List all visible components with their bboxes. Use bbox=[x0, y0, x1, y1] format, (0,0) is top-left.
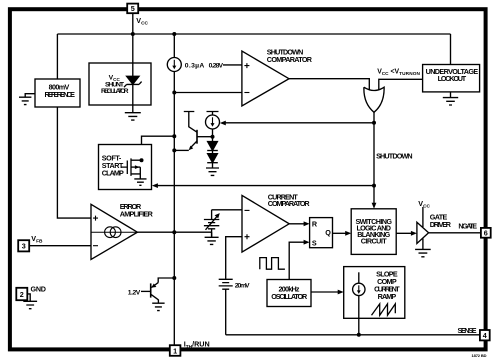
200kHz oscillator box bbox=[267, 280, 311, 307]
minus sign error amp bbox=[93, 245, 98, 247]
svg-text:DRIVER: DRIVER bbox=[430, 220, 452, 229]
ground left of 800mV reference bbox=[19, 94, 35, 105]
undervoltage lockout box bbox=[423, 65, 480, 92]
svg-text:CIRCUIT: CIRCUIT bbox=[361, 237, 388, 246]
label VCC SHUNT REGULATOR bbox=[101, 75, 129, 95]
zener diode in shunt regulator bbox=[132, 63, 134, 76]
wire current comparator output to R bbox=[289, 223, 306, 225]
svg-text:1: 1 bbox=[173, 346, 177, 355]
wire Q1 emitter to ITH line bbox=[174, 149, 189, 151]
wire reference to error amp + bbox=[57, 107, 91, 218]
sawtooth glyph bbox=[372, 304, 396, 315]
800mV reference box bbox=[35, 79, 80, 107]
wire gate driver ground stub bbox=[422, 239, 424, 250]
wire shutdown to clamp current source bbox=[223, 122, 375, 124]
wire ITH vertical main bbox=[173, 72, 175, 346]
ground under shunt regulator bbox=[125, 105, 141, 120]
junction dot rail-pin5 bbox=[131, 32, 135, 36]
OR gate bbox=[364, 87, 384, 112]
svg-text:REFERENCE: REFERENCE bbox=[45, 90, 76, 99]
junction dot slope comp on SENSE line bbox=[357, 333, 361, 337]
slope comp current source circle bbox=[353, 283, 365, 295]
wire slope comp output to SENSE line bbox=[358, 296, 360, 335]
transistor Q1 T-bar and collector bbox=[184, 112, 197, 133]
wire to shutdown comparator minus bbox=[174, 92, 242, 94]
svg-text:5: 5 bbox=[131, 4, 135, 13]
square wave glyph bbox=[260, 258, 285, 270]
diode D1 bbox=[208, 142, 218, 151]
wire shutdown to soft-start box bbox=[155, 185, 374, 187]
current source soft-start stubs and T-bar bbox=[207, 112, 219, 142]
error amplifier triangle bbox=[91, 204, 137, 259]
soft-start MOSFET body lead with arrow bbox=[131, 166, 140, 168]
junction dot shutdown line upper bbox=[372, 121, 376, 125]
transistor Q1 emitter with arrow bbox=[190, 141, 197, 148]
svg-text:0.28V: 0.28V bbox=[209, 63, 224, 70]
arrowhead into switching logic left bbox=[345, 231, 351, 236]
svg-text:0.3µA: 0.3µA bbox=[185, 63, 205, 70]
slope comp current ramp box bbox=[344, 267, 405, 319]
1.2V PNP base bar bbox=[150, 283, 152, 297]
svg-text:OSCILLATOR: OSCILLATOR bbox=[271, 292, 308, 301]
pin 2 box bbox=[16, 288, 27, 300]
svg-text:R: R bbox=[312, 219, 318, 228]
junction dot error amp output bbox=[172, 230, 176, 234]
ground in soft-start box bbox=[134, 179, 146, 185]
wire OR output SHUTDOWN vertical bbox=[373, 112, 375, 205]
wire pin5 stub bbox=[132, 13, 134, 63]
variable offset source arrow bbox=[206, 216, 218, 230]
ground under 1.2V PNP bbox=[152, 303, 164, 310]
arrowhead into clamp current source bbox=[220, 121, 226, 126]
gate driver triangle bbox=[417, 222, 429, 243]
arrowhead into slope comp box bbox=[338, 290, 344, 295]
junction dot MOSFET drain bbox=[140, 158, 144, 162]
diode D2 bbox=[208, 154, 218, 163]
arrowhead into switching logic top bbox=[372, 203, 377, 209]
svg-text:SENSE: SENSE bbox=[458, 326, 477, 335]
ground under offset source bbox=[205, 232, 219, 244]
pin 5 box bbox=[127, 4, 138, 14]
svg-text:AMPLIFIER: AMPLIFIER bbox=[120, 209, 154, 218]
switching logic and blanking circuit box bbox=[351, 209, 396, 255]
ground GND pin bbox=[23, 294, 37, 309]
wire oscillator to S input bbox=[289, 242, 306, 279]
minus sign shutdown comparator bbox=[244, 92, 249, 94]
minus sign current comparator bbox=[245, 209, 250, 211]
svg-text:GND: GND bbox=[31, 285, 47, 294]
svg-text:1.2V: 1.2V bbox=[128, 289, 141, 296]
svg-text:CLAMP: CLAMP bbox=[102, 168, 124, 177]
pin 3 box bbox=[18, 240, 29, 251]
svg-text:COMPARATOR: COMPARATOR bbox=[267, 55, 313, 64]
junction dot Q1 base diode node bbox=[211, 135, 215, 139]
svg-text:4: 4 bbox=[483, 331, 487, 340]
arrowhead into soft-start box bbox=[152, 183, 158, 188]
VCC shunt regulator box bbox=[89, 63, 151, 105]
wire soft-start drain to ITH node bbox=[142, 136, 175, 160]
wire VFB pin to error amp minus bbox=[29, 245, 91, 247]
svg-text:3: 3 bbox=[22, 242, 26, 251]
svg-text:RAMP: RAMP bbox=[378, 292, 397, 301]
soft-start MOSFET source lead bbox=[131, 167, 140, 179]
wire offset source vertical bbox=[211, 210, 213, 237]
junction dot Q1 emitter node bbox=[172, 148, 176, 152]
svg-text:COMPARATOR: COMPARATOR bbox=[268, 199, 311, 208]
arrowhead into gate driver bbox=[411, 231, 417, 236]
svg-text:6: 6 bbox=[484, 229, 488, 238]
transistor Q1 base bar bbox=[196, 130, 198, 144]
wire Q1 base to diode node bbox=[197, 136, 213, 138]
1.2V PNP emitter with arrow into bar bbox=[152, 283, 159, 288]
svg-text:REGULATOR: REGULATOR bbox=[101, 88, 129, 95]
junction dot shutdown line lower bbox=[372, 184, 376, 188]
soft-start MOSFET gate lead and bars bbox=[122, 158, 132, 176]
wire latch Q to switching logic bbox=[333, 232, 349, 234]
pin 1 box bbox=[170, 345, 181, 356]
wire oscillator to slope comp box bbox=[311, 291, 341, 293]
RS latch box bbox=[310, 218, 333, 248]
wire 1.2V PNP emitter to ITH line bbox=[158, 278, 174, 283]
wire current comparator plus to 20mV battery bbox=[226, 237, 242, 279]
junction dot PNP emitter node bbox=[172, 276, 176, 280]
wire SENSE line to pin 4 bbox=[226, 334, 480, 336]
arrowhead into R input bbox=[304, 221, 310, 226]
wire switching logic to gate driver bbox=[396, 232, 413, 234]
wire gate driver VCC stub bbox=[422, 207, 424, 227]
current source soft-start clamp circle bbox=[206, 115, 220, 129]
pin 4 box bbox=[480, 330, 490, 340]
plus sign error amp bbox=[93, 216, 98, 221]
wire offset source to current comparator minus bbox=[212, 209, 242, 211]
pin 6 box bbox=[481, 228, 491, 238]
arrowhead into S input bbox=[304, 240, 310, 245]
wire gate driver output to NGATE pin bbox=[429, 232, 481, 234]
svg-text:2: 2 bbox=[20, 290, 24, 299]
wire rail drop to UVLO bbox=[450, 34, 452, 65]
wire 20mV battery to SENSE line bbox=[225, 289, 227, 335]
soft-start clamp box bbox=[99, 145, 152, 190]
1.2V PNP collector bbox=[151, 294, 159, 300]
ground under UVLO bbox=[443, 92, 458, 105]
junction dot soft-start node bbox=[172, 134, 176, 138]
shutdown comparator triangle bbox=[242, 51, 289, 106]
wire error amp output bbox=[137, 231, 211, 233]
junction dot comparator minus bbox=[172, 91, 176, 95]
20mV battery bbox=[219, 279, 233, 289]
wire shutdown comparator output to OR gate bbox=[289, 79, 369, 91]
wire VCC rail bbox=[57, 33, 450, 35]
wire UVLO output to OR gate bbox=[379, 79, 423, 90]
svg-text:Q: Q bbox=[325, 228, 331, 237]
svg-text:LOCKOUT: LOCKOUT bbox=[438, 74, 467, 83]
wire 0.28V to shutdown comparator plus bbox=[223, 64, 242, 66]
plus sign current comparator bbox=[245, 234, 250, 239]
wire 0.3uA source top bbox=[173, 34, 175, 58]
wire slope comp ramp vertical top bbox=[358, 272, 360, 283]
wire 1.2V PNP collector to ground bbox=[157, 300, 159, 304]
error amplifier gm circles bbox=[105, 227, 116, 238]
variable offset source bars bbox=[204, 220, 219, 229]
error amplifier gm line bbox=[91, 231, 137, 233]
current comparator triangle bbox=[242, 195, 289, 252]
ground under gate driver bbox=[415, 249, 431, 256]
soft-start MOSFET drain lead bbox=[131, 159, 142, 161]
wire rail to reference bbox=[56, 34, 58, 79]
svg-text:NGATE: NGATE bbox=[458, 222, 477, 231]
current source 0.3uA circle bbox=[167, 58, 181, 72]
svg-text:20mV: 20mV bbox=[235, 282, 250, 289]
wire 1.2V PNP base bbox=[141, 290, 151, 292]
ground under diodes bbox=[206, 168, 219, 175]
svg-text:1872 BD: 1872 BD bbox=[472, 353, 487, 358]
plus sign shutdown comparator bbox=[244, 63, 249, 68]
svg-text:SHUTDOWN: SHUTDOWN bbox=[376, 152, 413, 161]
svg-text:S: S bbox=[312, 238, 317, 247]
junction dot rail-0.3uA bbox=[172, 32, 176, 36]
